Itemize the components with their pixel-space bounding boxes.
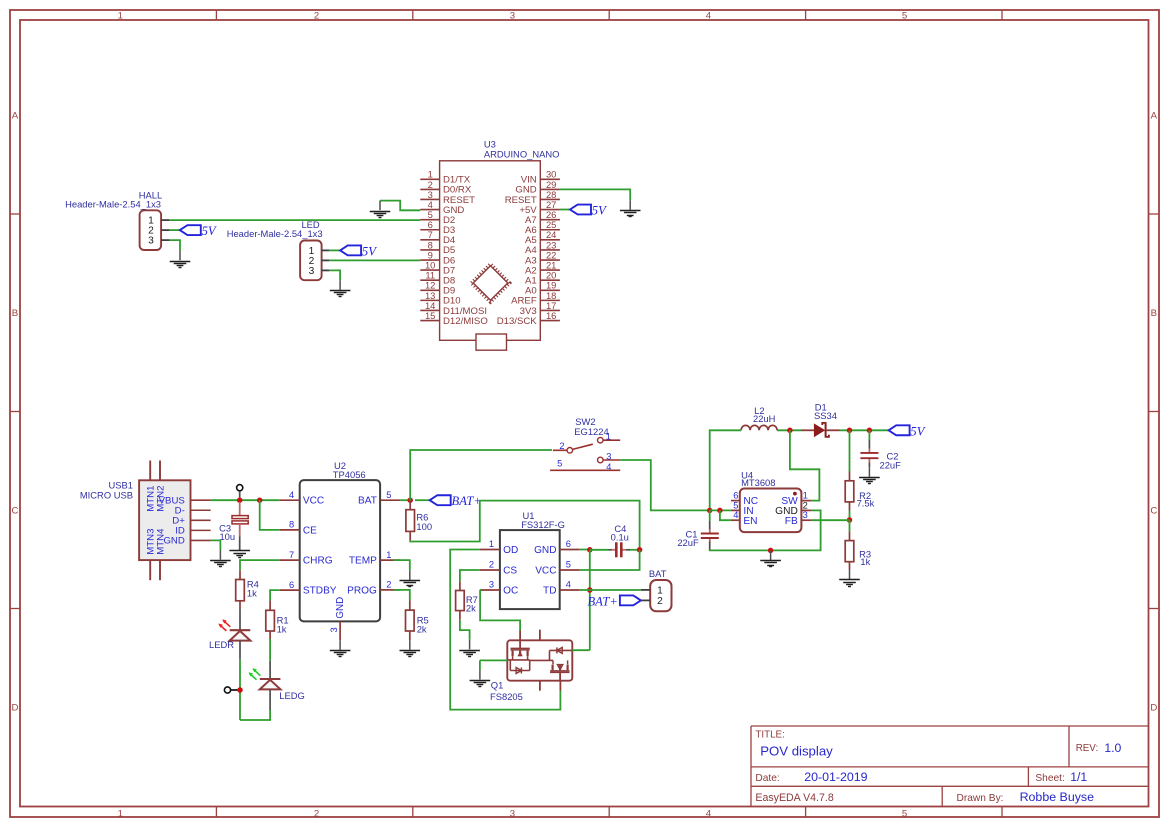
svg-text:0.1u: 0.1u bbox=[611, 532, 629, 543]
svg-text:BAT: BAT bbox=[649, 568, 667, 579]
svg-text:POV display: POV display bbox=[760, 744, 833, 759]
svg-text:SS34: SS34 bbox=[814, 410, 837, 421]
svg-text:6: 6 bbox=[566, 539, 571, 549]
svg-text:TITLE:: TITLE: bbox=[755, 730, 784, 741]
svg-text:MT3608: MT3608 bbox=[741, 477, 775, 488]
svg-text:GND: GND bbox=[534, 545, 556, 556]
svg-text:TEMP: TEMP bbox=[349, 556, 377, 567]
svg-text:5: 5 bbox=[557, 459, 562, 469]
svg-text:REV:: REV: bbox=[1076, 743, 1099, 754]
svg-text:5V: 5V bbox=[592, 204, 607, 218]
svg-text:10u: 10u bbox=[219, 531, 235, 542]
svg-text:1k: 1k bbox=[860, 556, 870, 567]
svg-text:5V: 5V bbox=[910, 424, 925, 438]
svg-text:1: 1 bbox=[657, 585, 663, 596]
svg-text:4: 4 bbox=[706, 11, 712, 22]
svg-text:VCC: VCC bbox=[535, 566, 556, 577]
svg-text:BAT+: BAT+ bbox=[452, 494, 482, 508]
svg-text:1: 1 bbox=[606, 432, 611, 442]
svg-text:15: 15 bbox=[425, 310, 435, 321]
svg-text:2: 2 bbox=[386, 580, 391, 590]
svg-text:2: 2 bbox=[657, 596, 663, 607]
svg-text:MICRO USB: MICRO USB bbox=[80, 489, 133, 500]
svg-text:1.0: 1.0 bbox=[1104, 741, 1121, 755]
svg-text:2k: 2k bbox=[466, 603, 476, 614]
svg-text:Q1: Q1 bbox=[491, 680, 504, 691]
svg-text:3: 3 bbox=[510, 808, 515, 819]
svg-text:5: 5 bbox=[902, 808, 907, 819]
svg-text:1: 1 bbox=[803, 491, 808, 501]
svg-text:FS312F-G: FS312F-G bbox=[521, 519, 565, 530]
svg-text:5: 5 bbox=[733, 500, 738, 510]
svg-text:4: 4 bbox=[289, 490, 294, 500]
svg-text:1: 1 bbox=[118, 808, 123, 819]
svg-text:Robbe Buyse: Robbe Buyse bbox=[1020, 790, 1095, 804]
svg-text:4: 4 bbox=[566, 580, 571, 590]
svg-text:Sheet:: Sheet: bbox=[1035, 773, 1064, 784]
svg-text:OD: OD bbox=[503, 545, 518, 556]
svg-text:1/1: 1/1 bbox=[1070, 770, 1087, 784]
svg-text:OC: OC bbox=[503, 586, 518, 597]
svg-text:C: C bbox=[1150, 505, 1157, 516]
svg-text:B: B bbox=[12, 308, 18, 319]
svg-text:5: 5 bbox=[902, 11, 907, 22]
svg-text:D12/MISO: D12/MISO bbox=[443, 316, 488, 327]
svg-text:3: 3 bbox=[489, 580, 494, 590]
svg-text:TD: TD bbox=[543, 586, 556, 597]
svg-text:22uF: 22uF bbox=[677, 537, 699, 548]
svg-text:Date:: Date: bbox=[755, 773, 779, 784]
svg-text:5V: 5V bbox=[202, 224, 217, 238]
svg-text:1k: 1k bbox=[277, 624, 287, 635]
svg-text:2: 2 bbox=[489, 560, 494, 570]
svg-text:1: 1 bbox=[118, 11, 123, 22]
svg-text:EN: EN bbox=[743, 516, 757, 527]
svg-text:4: 4 bbox=[606, 462, 611, 472]
svg-text:6: 6 bbox=[733, 491, 738, 501]
svg-text:LEDR: LEDR bbox=[209, 639, 234, 650]
svg-text:C: C bbox=[12, 505, 19, 516]
svg-text:CHRG: CHRG bbox=[303, 556, 333, 567]
svg-text:Drawn By:: Drawn By: bbox=[957, 793, 1004, 804]
svg-text:ARDUINO_NANO: ARDUINO_NANO bbox=[484, 148, 560, 159]
svg-text:3: 3 bbox=[309, 266, 315, 277]
svg-text:SW2: SW2 bbox=[575, 416, 595, 427]
svg-text:3: 3 bbox=[606, 452, 611, 462]
svg-text:3: 3 bbox=[148, 236, 154, 247]
svg-text:1: 1 bbox=[489, 539, 494, 549]
svg-text:A: A bbox=[1151, 110, 1158, 121]
svg-text:4: 4 bbox=[706, 808, 712, 819]
svg-text:100: 100 bbox=[416, 521, 432, 532]
svg-text:7: 7 bbox=[289, 550, 294, 560]
svg-text:2: 2 bbox=[803, 500, 808, 510]
svg-text:Header-Male-2.54_1x3: Header-Male-2.54_1x3 bbox=[227, 228, 323, 239]
svg-text:CE: CE bbox=[303, 525, 317, 536]
svg-text:2: 2 bbox=[559, 441, 564, 451]
svg-text:LEDG: LEDG bbox=[279, 690, 305, 701]
svg-text:16: 16 bbox=[546, 310, 556, 321]
svg-text:1k: 1k bbox=[247, 587, 257, 598]
svg-text:1: 1 bbox=[386, 550, 391, 560]
svg-text:4: 4 bbox=[733, 510, 738, 520]
svg-text:FS8205: FS8205 bbox=[490, 691, 523, 702]
svg-text:STDBY: STDBY bbox=[303, 586, 337, 597]
svg-text:Header-Male-2.54_1x3: Header-Male-2.54_1x3 bbox=[65, 198, 161, 209]
svg-text:22uH: 22uH bbox=[753, 413, 775, 424]
svg-text:2k: 2k bbox=[417, 623, 427, 634]
svg-text:VCC: VCC bbox=[303, 496, 324, 507]
svg-text:B: B bbox=[1151, 308, 1157, 319]
svg-text:MTN2: MTN2 bbox=[155, 486, 166, 512]
svg-text:3: 3 bbox=[803, 510, 808, 520]
svg-text:GND: GND bbox=[335, 597, 346, 619]
svg-text:GND: GND bbox=[163, 536, 184, 547]
svg-text:2: 2 bbox=[314, 808, 319, 819]
svg-text:EasyEDA V4.7.8: EasyEDA V4.7.8 bbox=[755, 792, 833, 804]
svg-text:CS: CS bbox=[503, 566, 517, 577]
svg-text:6: 6 bbox=[289, 580, 294, 590]
svg-text:D13/SCK: D13/SCK bbox=[497, 316, 538, 327]
svg-text:TP4056: TP4056 bbox=[333, 469, 366, 480]
svg-text:22uF: 22uF bbox=[880, 459, 902, 470]
svg-text:5V: 5V bbox=[362, 244, 377, 258]
svg-text:7.5k: 7.5k bbox=[857, 498, 875, 509]
svg-text:FB: FB bbox=[785, 516, 798, 527]
svg-text:20-01-2019: 20-01-2019 bbox=[804, 770, 867, 784]
svg-text:8: 8 bbox=[289, 520, 294, 530]
svg-text:D: D bbox=[1150, 703, 1157, 714]
svg-text:BAT: BAT bbox=[358, 496, 377, 507]
svg-text:5: 5 bbox=[566, 560, 571, 570]
svg-text:EG1224: EG1224 bbox=[574, 426, 608, 437]
svg-text:A: A bbox=[12, 110, 19, 121]
svg-text:PROG: PROG bbox=[347, 585, 377, 596]
svg-text:5: 5 bbox=[386, 490, 391, 500]
svg-text:3: 3 bbox=[510, 11, 515, 22]
svg-text:MTN4: MTN4 bbox=[155, 528, 166, 555]
svg-text:3: 3 bbox=[329, 627, 339, 632]
svg-text:BAT+: BAT+ bbox=[587, 594, 617, 608]
svg-text:2: 2 bbox=[314, 11, 319, 22]
svg-text:D: D bbox=[12, 703, 19, 714]
